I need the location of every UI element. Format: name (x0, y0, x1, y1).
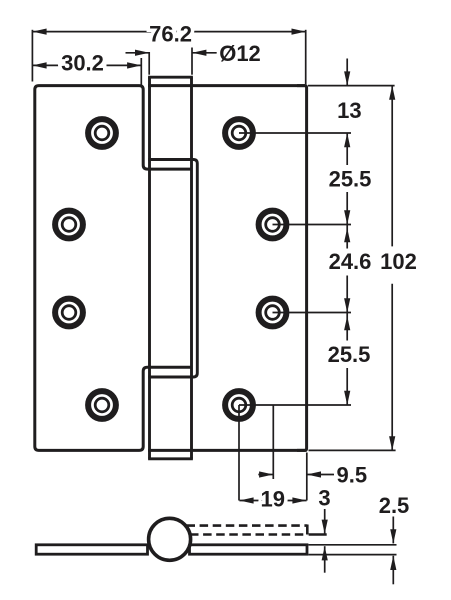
arrow 2.5 down (390, 529, 396, 543)
arrow 102 up (389, 86, 395, 100)
dimension line dia12 right tail (192, 52, 221, 54)
arrow chain up at hole2 (344, 228, 350, 242)
dimension line 9.5 left outside tail (258, 474, 273, 476)
arrow chain up at hole3 (344, 316, 350, 330)
arrow 3 up (322, 546, 328, 560)
screw hole 3 left (55, 299, 83, 327)
dimension line 30.2 (32, 64, 141, 66)
dimension line 19 (239, 500, 306, 502)
dimension line 2.5 upper (392, 517, 394, 544)
side view left leaf bar (36, 545, 147, 554)
screw hole 4 right (225, 391, 253, 419)
svg-text:13: 13 (337, 98, 361, 123)
plate bottom edge (from knuckle left edge to right plate edge) (148, 449, 307, 452)
svg-text:24.6: 24.6 (329, 249, 372, 274)
extension plate right edge down (9.5/19 right) (306, 453, 308, 501)
leader hole 3 right (273, 312, 352, 314)
side view hidden leaf (dashed) top (187, 524, 308, 527)
screw hole 1 right (225, 119, 253, 147)
knuckle top cap (148, 76, 193, 79)
extension line dia12 right (191, 48, 193, 75)
knuckle outer sleeve (right side) with top line H1 and bottom line H4 (148, 160, 197, 378)
extension of hidden leaf bottom for dim 3 (309, 533, 327, 536)
arrow 19 left (239, 497, 253, 503)
bottom extension line for 102 (309, 449, 396, 451)
arrow 9.5 left pointing right (259, 471, 273, 477)
arrow 9.5 right pointing left (307, 471, 321, 477)
arrow chain down at hole4 (344, 391, 350, 405)
svg-text:25.5: 25.5 (329, 166, 372, 191)
extension hole4 down (19 left) (238, 405, 240, 501)
svg-text:76.2: 76.2 (149, 21, 192, 46)
arrow dia12 left (135, 50, 149, 56)
screw hole 2 left (55, 211, 83, 239)
side view top extension line (2.5) (309, 544, 397, 546)
arrow 102 down (389, 436, 395, 450)
svg-text:Ø12: Ø12 (219, 41, 261, 66)
svg-text:2.5: 2.5 (379, 493, 410, 518)
dimension line 2.5 lower (392, 556, 394, 585)
dimension line 3 upper (324, 509, 326, 534)
arrow chain down at hole3 (344, 298, 350, 312)
svg-text:3: 3 (318, 486, 330, 511)
arrow 30.2 left (32, 62, 46, 68)
arrow 30.2 right (127, 62, 141, 68)
extension from hole4 leader down (9.5 left) (272, 405, 274, 479)
leader hole 1 right (239, 132, 351, 134)
left leaf plate (outline incl. joint lines H2/H3 into knuckle) (35, 86, 192, 451)
extension line right (76.2) (305, 30, 307, 84)
dimension line dia12 left tail (126, 52, 150, 54)
extension line dia12 left (148, 52, 150, 75)
knuckle bottom cap (148, 457, 193, 460)
screw hole 2 right (259, 211, 287, 239)
dimension line 3 lower (324, 546, 326, 573)
dimension labels (61, 21, 417, 518)
svg-text:19: 19 (260, 487, 284, 512)
arrow chain down at hole2 (344, 210, 350, 224)
svg-text:9.5: 9.5 (337, 463, 368, 488)
svg-text:25.5: 25.5 (328, 342, 371, 367)
chain line segment 25.5 lower (346, 313, 348, 341)
knuckle left edge (148, 77, 151, 459)
screw hole 1 left (88, 119, 116, 147)
screw hole 3 right (259, 299, 287, 327)
arrow 76.2 right (292, 29, 306, 35)
arrow 3 down (322, 520, 328, 534)
side view hidden leaf (dashed) end cap (306, 525, 309, 535)
extension line left (76.2 / 30.2) (31, 30, 33, 82)
dimension line 102 (391, 86, 393, 247)
knuckle right edge (190, 77, 193, 459)
dimension line 76.2 (32, 31, 305, 33)
side view hidden leaf (dashed) bottom (190, 533, 308, 536)
side view knuckle circle (149, 518, 191, 560)
top extension line for 13 and 102 (308, 85, 395, 87)
extension line 30.2 right (140, 58, 142, 86)
arrow chain top down (344, 71, 350, 85)
svg-text:102: 102 (380, 249, 417, 274)
screw hole 4 left (88, 391, 116, 419)
plate top edge (from knuckle left edge to right plate edge) (148, 84, 307, 87)
chain line segment 24.6 (346, 225, 348, 249)
side view bottom extension line (2.5) (309, 554, 397, 556)
chain line segment 25.5 upper (346, 133, 348, 165)
leader hole 4 right (239, 404, 351, 406)
svg-text:30.2: 30.2 (61, 51, 104, 76)
thin dimension / extension lines (32, 30, 396, 585)
arrow 2.5 up (390, 556, 396, 570)
arrow chain up at hole1 (344, 133, 350, 147)
arrow dia12 right (192, 50, 206, 56)
dimension line 9.5 right tail (307, 474, 334, 476)
right leaf plate right edge (297, 86, 307, 451)
arrowheads (32, 29, 396, 571)
side view right leaf bar (190, 545, 308, 554)
arrow 19 right (292, 497, 306, 503)
arrow 76.2 left (32, 29, 46, 35)
chain line top segment (13) (346, 59, 348, 86)
leader hole 2 right (273, 224, 352, 226)
